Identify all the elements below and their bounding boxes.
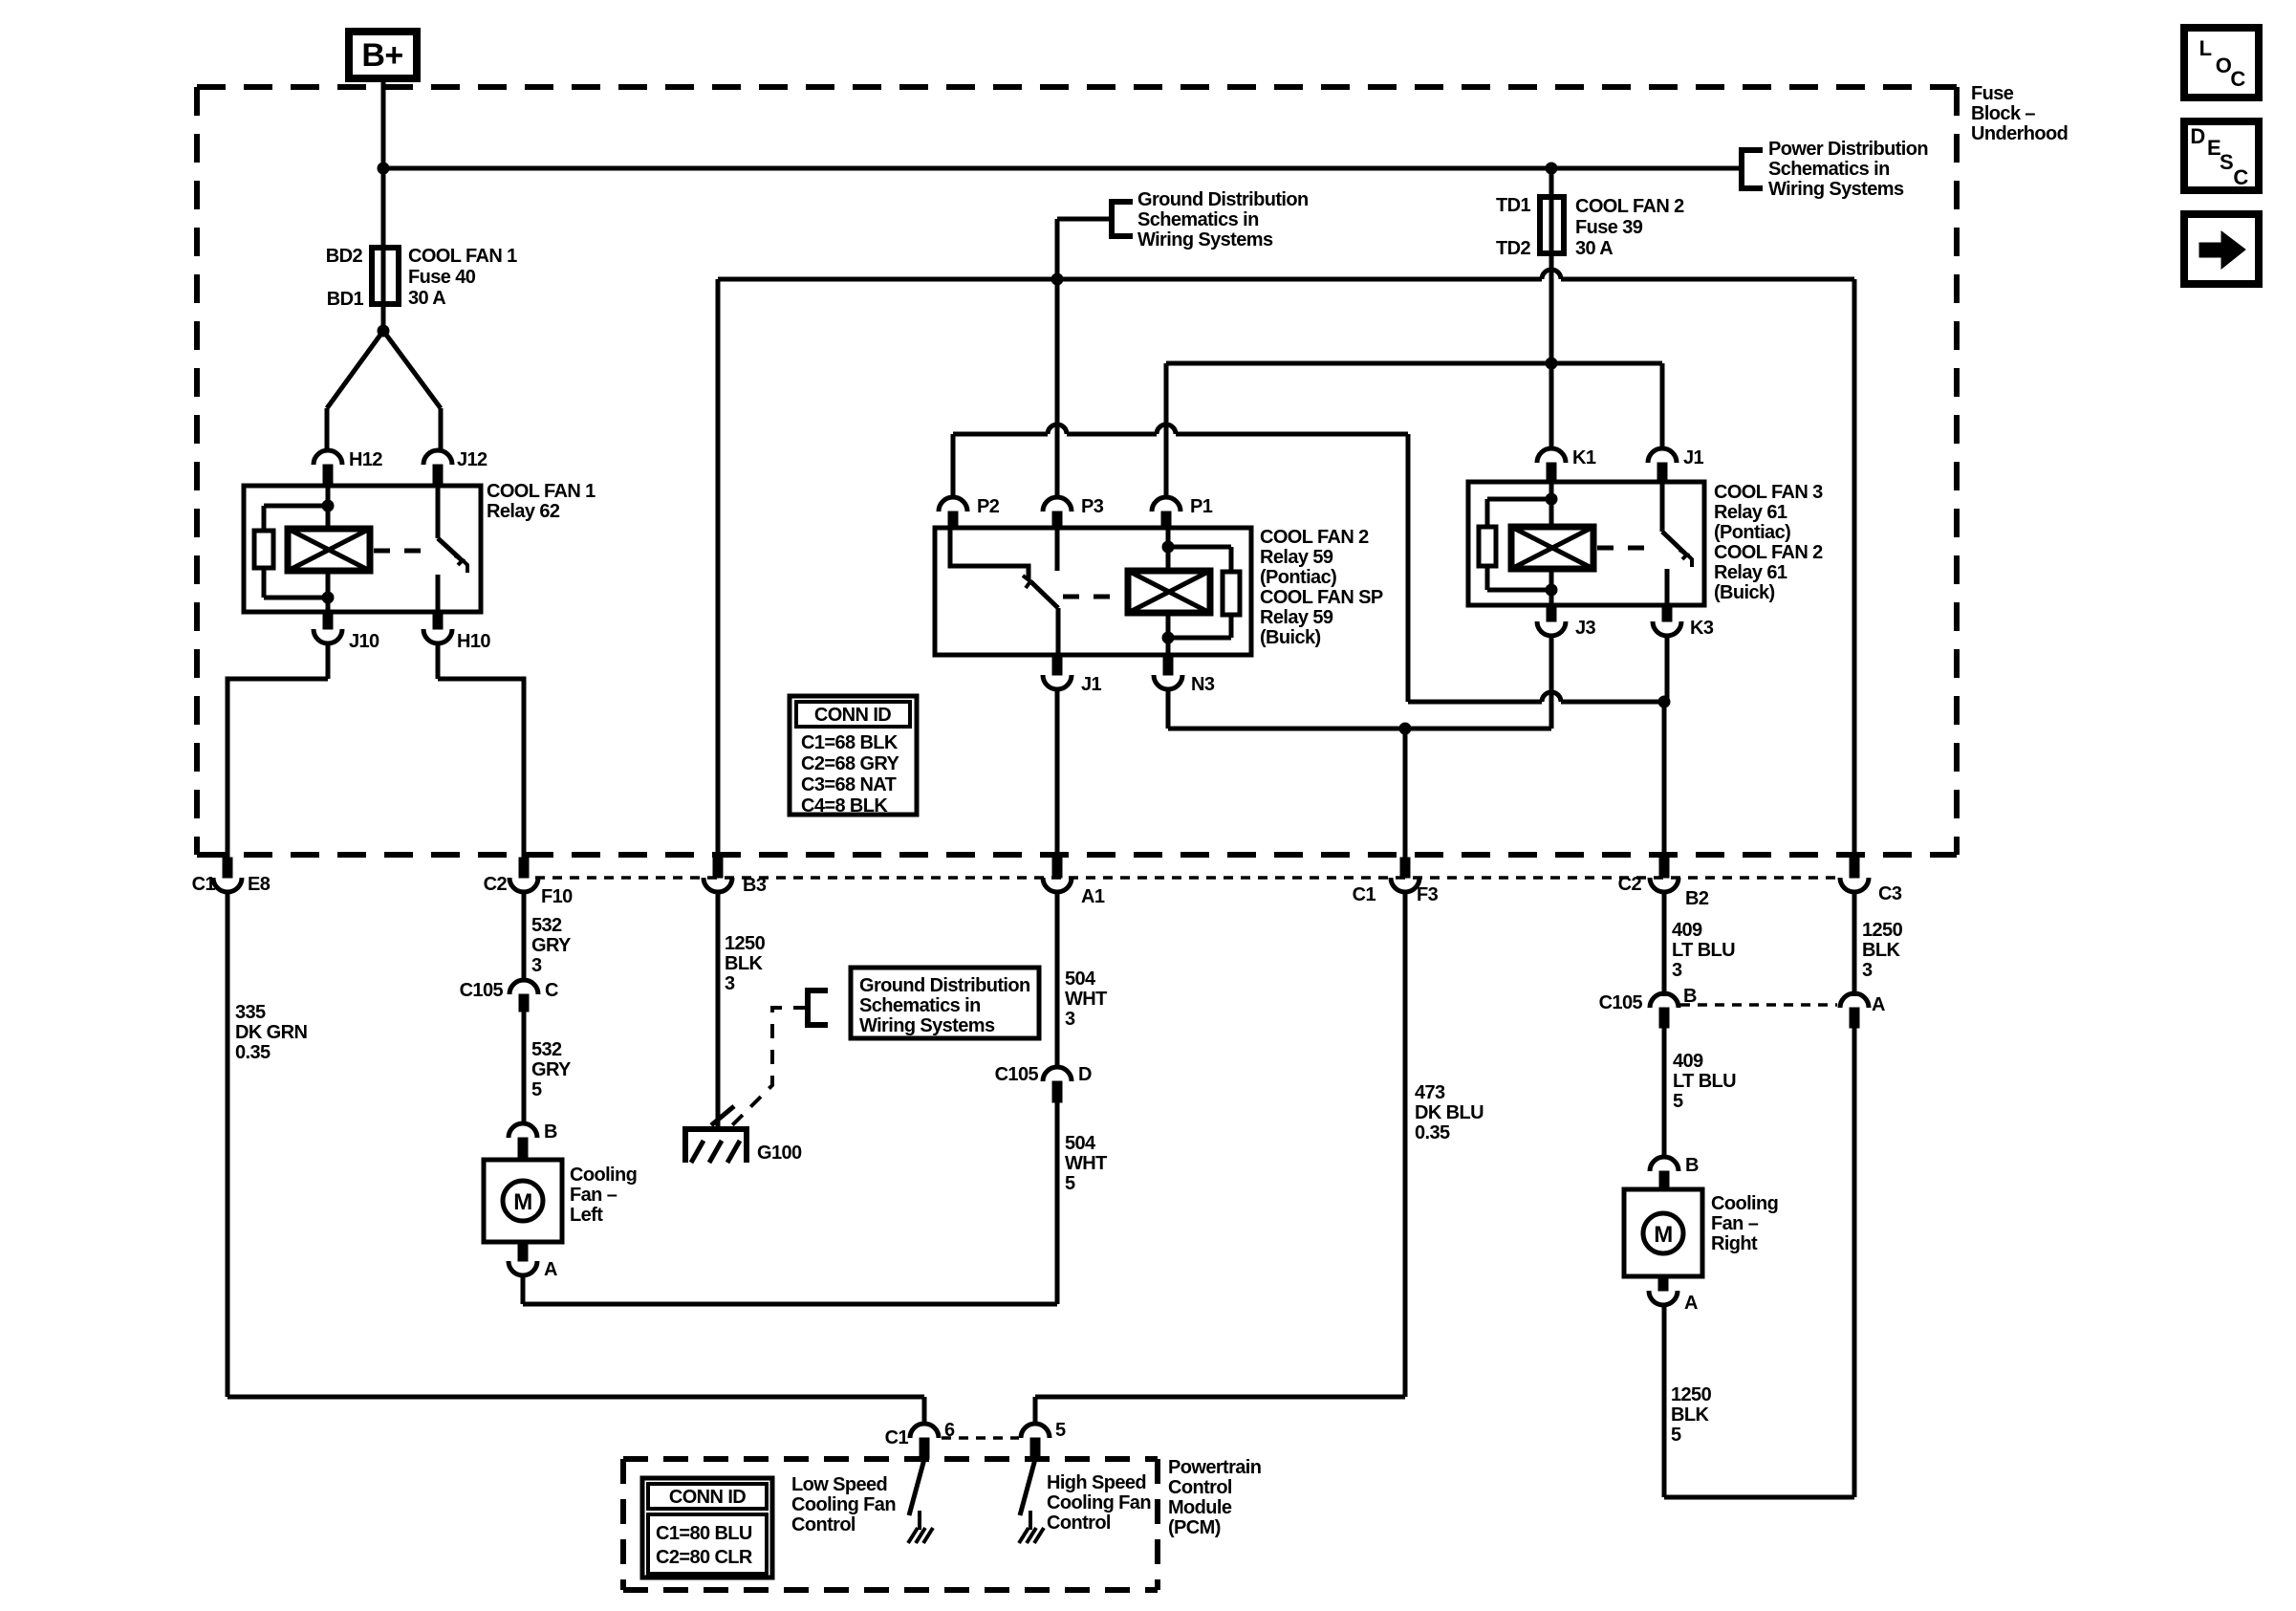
svg-text:Wiring Systems: Wiring Systems xyxy=(859,1015,995,1036)
svg-text:N3: N3 xyxy=(1191,674,1215,695)
svg-text:S: S xyxy=(2220,150,2233,174)
svg-text:CONN ID: CONN ID xyxy=(814,705,891,726)
svg-text:BLK: BLK xyxy=(725,953,763,974)
svg-text:COOL FAN 2: COOL FAN 2 xyxy=(1260,527,1369,548)
svg-text:K3: K3 xyxy=(1690,618,1714,639)
svg-text:COOL FAN 2: COOL FAN 2 xyxy=(1714,542,1823,563)
svg-text:BD1: BD1 xyxy=(327,289,364,310)
svg-text:Underhood: Underhood xyxy=(1971,123,2068,144)
svg-text:P1: P1 xyxy=(1190,496,1213,517)
svg-text:J10: J10 xyxy=(349,631,379,652)
svg-text:C105: C105 xyxy=(995,1064,1039,1085)
svg-text:BLK: BLK xyxy=(1862,940,1900,961)
svg-text:3: 3 xyxy=(1672,960,1682,981)
svg-text:DK GRN: DK GRN xyxy=(235,1022,307,1043)
svg-text:COOL FAN SP: COOL FAN SP xyxy=(1260,587,1383,608)
svg-text:WHT: WHT xyxy=(1065,1153,1107,1174)
svg-text:Fan –: Fan – xyxy=(570,1185,617,1206)
svg-text:Fuse 40: Fuse 40 xyxy=(408,267,476,288)
svg-text:504: 504 xyxy=(1065,969,1096,990)
svg-text:F3: F3 xyxy=(1417,884,1439,905)
svg-text:High Speed: High Speed xyxy=(1047,1472,1146,1493)
svg-text:D: D xyxy=(2190,124,2204,148)
svg-text:Relay 59: Relay 59 xyxy=(1260,607,1333,628)
svg-text:F10: F10 xyxy=(541,886,573,907)
svg-text:409: 409 xyxy=(1672,920,1702,941)
svg-text:H12: H12 xyxy=(349,449,382,470)
svg-text:Schematics in: Schematics in xyxy=(859,995,981,1016)
svg-text:409: 409 xyxy=(1673,1051,1703,1072)
svg-text:C4=8 BLK: C4=8 BLK xyxy=(801,795,888,816)
svg-text:TD2: TD2 xyxy=(1496,238,1530,259)
svg-text:Ground Distribution: Ground Distribution xyxy=(859,975,1030,996)
svg-text:C: C xyxy=(545,980,558,1001)
svg-text:GRY: GRY xyxy=(531,1059,572,1080)
svg-text:C: C xyxy=(2230,67,2245,91)
svg-text:5: 5 xyxy=(1055,1420,1066,1441)
svg-text:473: 473 xyxy=(1415,1082,1445,1103)
svg-text:C: C xyxy=(2233,165,2248,189)
svg-text:(PCM): (PCM) xyxy=(1168,1517,1221,1538)
svg-text:Fuse 39: Fuse 39 xyxy=(1575,217,1643,238)
svg-text:P2: P2 xyxy=(977,496,1000,517)
svg-text:COOL FAN 2: COOL FAN 2 xyxy=(1575,196,1684,217)
svg-text:C3=68 NAT: C3=68 NAT xyxy=(801,774,897,795)
svg-text:5: 5 xyxy=(1673,1091,1683,1112)
svg-text:K1: K1 xyxy=(1572,447,1596,468)
svg-text:GRY: GRY xyxy=(531,935,572,956)
svg-text:COOL FAN 1: COOL FAN 1 xyxy=(487,481,596,502)
svg-text:C3: C3 xyxy=(1878,883,1902,904)
svg-text:1250: 1250 xyxy=(1862,920,1903,941)
svg-text:Low Speed: Low Speed xyxy=(791,1474,887,1495)
svg-text:J1: J1 xyxy=(1683,447,1704,468)
svg-text:Cooling Fan: Cooling Fan xyxy=(1047,1492,1151,1513)
svg-text:532: 532 xyxy=(531,915,562,936)
svg-text:C1=68 BLK: C1=68 BLK xyxy=(801,732,899,753)
svg-text:TD1: TD1 xyxy=(1496,195,1530,216)
svg-text:335: 335 xyxy=(235,1002,266,1023)
svg-text:Module: Module xyxy=(1168,1497,1232,1518)
svg-text:Left: Left xyxy=(570,1205,603,1226)
svg-text:BD2: BD2 xyxy=(326,246,363,267)
svg-text:30 A: 30 A xyxy=(408,288,445,309)
svg-text:A: A xyxy=(1684,1293,1698,1314)
svg-text:Control: Control xyxy=(1047,1513,1111,1534)
svg-text:C2: C2 xyxy=(484,874,508,895)
svg-text:COOL FAN 3: COOL FAN 3 xyxy=(1714,482,1823,503)
svg-text:Schematics in: Schematics in xyxy=(1137,209,1259,230)
svg-text:Ground Distribution: Ground Distribution xyxy=(1137,189,1309,210)
svg-text:J12: J12 xyxy=(457,449,487,470)
svg-text:3: 3 xyxy=(1065,1009,1075,1030)
svg-text:M: M xyxy=(513,1189,531,1215)
svg-text:0.35: 0.35 xyxy=(235,1042,271,1063)
svg-text:C1: C1 xyxy=(885,1427,909,1448)
svg-text:Cooling: Cooling xyxy=(1711,1193,1778,1214)
svg-text:Relay 61: Relay 61 xyxy=(1714,562,1787,583)
svg-text:Powertrain: Powertrain xyxy=(1168,1457,1261,1478)
svg-text:C2: C2 xyxy=(1618,874,1642,895)
svg-text:B2: B2 xyxy=(1685,888,1709,909)
svg-text:A: A xyxy=(1872,994,1885,1015)
svg-text:(Pontiac): (Pontiac) xyxy=(1714,522,1790,543)
svg-text:C105: C105 xyxy=(1599,992,1643,1013)
svg-text:Fuse: Fuse xyxy=(1971,83,2014,104)
svg-text:Control: Control xyxy=(1168,1477,1232,1498)
svg-text:Relay 61: Relay 61 xyxy=(1714,502,1787,523)
svg-text:C1=80 BLU: C1=80 BLU xyxy=(656,1523,752,1544)
svg-text:P3: P3 xyxy=(1081,496,1104,517)
svg-text:WHT: WHT xyxy=(1065,989,1107,1010)
svg-text:H10: H10 xyxy=(457,631,490,652)
svg-text:A: A xyxy=(544,1259,557,1280)
svg-text:C1: C1 xyxy=(192,874,216,895)
svg-text:0.35: 0.35 xyxy=(1415,1122,1450,1143)
svg-text:O: O xyxy=(2216,54,2232,77)
svg-text:G100: G100 xyxy=(757,1143,802,1164)
svg-text:5: 5 xyxy=(1671,1425,1681,1446)
svg-text:J3: J3 xyxy=(1575,618,1596,639)
svg-text:504: 504 xyxy=(1065,1133,1096,1154)
svg-text:CONN ID: CONN ID xyxy=(669,1487,746,1508)
svg-text:Control: Control xyxy=(791,1514,856,1535)
svg-text:1250: 1250 xyxy=(725,933,766,954)
svg-text:LT BLU: LT BLU xyxy=(1673,1071,1736,1092)
svg-text:(Buick): (Buick) xyxy=(1260,627,1321,648)
svg-text:5: 5 xyxy=(531,1079,542,1100)
svg-text:C2=68 GRY: C2=68 GRY xyxy=(801,753,900,774)
svg-text:D: D xyxy=(1078,1064,1092,1085)
svg-text:(Pontiac): (Pontiac) xyxy=(1260,567,1336,588)
svg-text:3: 3 xyxy=(531,955,542,976)
svg-text:E8: E8 xyxy=(248,874,271,895)
svg-text:Relay 59: Relay 59 xyxy=(1260,547,1333,568)
svg-text:Schematics in: Schematics in xyxy=(1768,159,1890,180)
svg-text:C2=80 CLR: C2=80 CLR xyxy=(656,1547,753,1568)
svg-text:Fan –: Fan – xyxy=(1711,1213,1759,1234)
svg-text:B3: B3 xyxy=(743,875,767,896)
svg-text:B+: B+ xyxy=(361,37,402,74)
svg-text:LT BLU: LT BLU xyxy=(1672,940,1735,961)
svg-text:Wiring Systems: Wiring Systems xyxy=(1137,229,1273,250)
svg-text:B: B xyxy=(1685,1155,1699,1176)
svg-text:A1: A1 xyxy=(1081,886,1105,907)
svg-text:Cooling: Cooling xyxy=(570,1165,637,1186)
svg-text:DK BLU: DK BLU xyxy=(1415,1102,1484,1123)
svg-text:Relay 62: Relay 62 xyxy=(487,501,560,522)
svg-text:E: E xyxy=(2207,136,2220,160)
svg-text:Cooling Fan: Cooling Fan xyxy=(791,1494,896,1515)
svg-text:M: M xyxy=(1654,1222,1672,1248)
svg-text:Block –: Block – xyxy=(1971,103,2035,124)
svg-text:1250: 1250 xyxy=(1671,1384,1712,1405)
svg-text:C105: C105 xyxy=(460,980,504,1001)
svg-text:COOL FAN 1: COOL FAN 1 xyxy=(408,246,517,267)
svg-text:C1: C1 xyxy=(1353,884,1376,905)
svg-text:Right: Right xyxy=(1711,1233,1758,1254)
svg-text:532: 532 xyxy=(531,1039,562,1060)
svg-text:L: L xyxy=(2199,36,2212,60)
svg-text:BLK: BLK xyxy=(1671,1404,1709,1426)
svg-text:Wiring Systems: Wiring Systems xyxy=(1768,179,1904,200)
svg-text:3: 3 xyxy=(1862,960,1873,981)
svg-text:B: B xyxy=(544,1121,557,1143)
svg-text:J1: J1 xyxy=(1081,674,1102,695)
svg-text:Power Distribution: Power Distribution xyxy=(1768,139,1928,160)
svg-text:(Buick): (Buick) xyxy=(1714,582,1775,603)
svg-text:5: 5 xyxy=(1065,1173,1075,1194)
svg-text:3: 3 xyxy=(725,973,735,994)
svg-text:30 A: 30 A xyxy=(1575,238,1613,259)
